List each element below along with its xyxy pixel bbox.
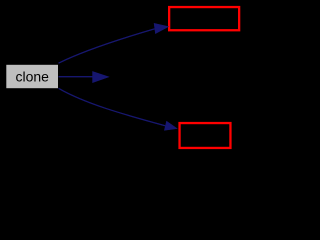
node clone (current node, grey fill)	[6, 65, 58, 88]
node box bottom-right (red border, truncated node)	[180, 123, 231, 148]
arrowhead bottom edge	[164, 121, 178, 131]
wire edge clone to middle (hidden) node	[59, 76, 93, 78]
arrowhead top edge	[154, 23, 170, 34]
wire edge clone to bottom box	[59, 88, 166, 125]
svg-text:clone: clone	[15, 68, 49, 84]
node box top-right (red border, truncated node)	[169, 7, 239, 30]
arrowhead middle edge	[92, 71, 109, 83]
wire edge clone to top box	[59, 29, 155, 63]
